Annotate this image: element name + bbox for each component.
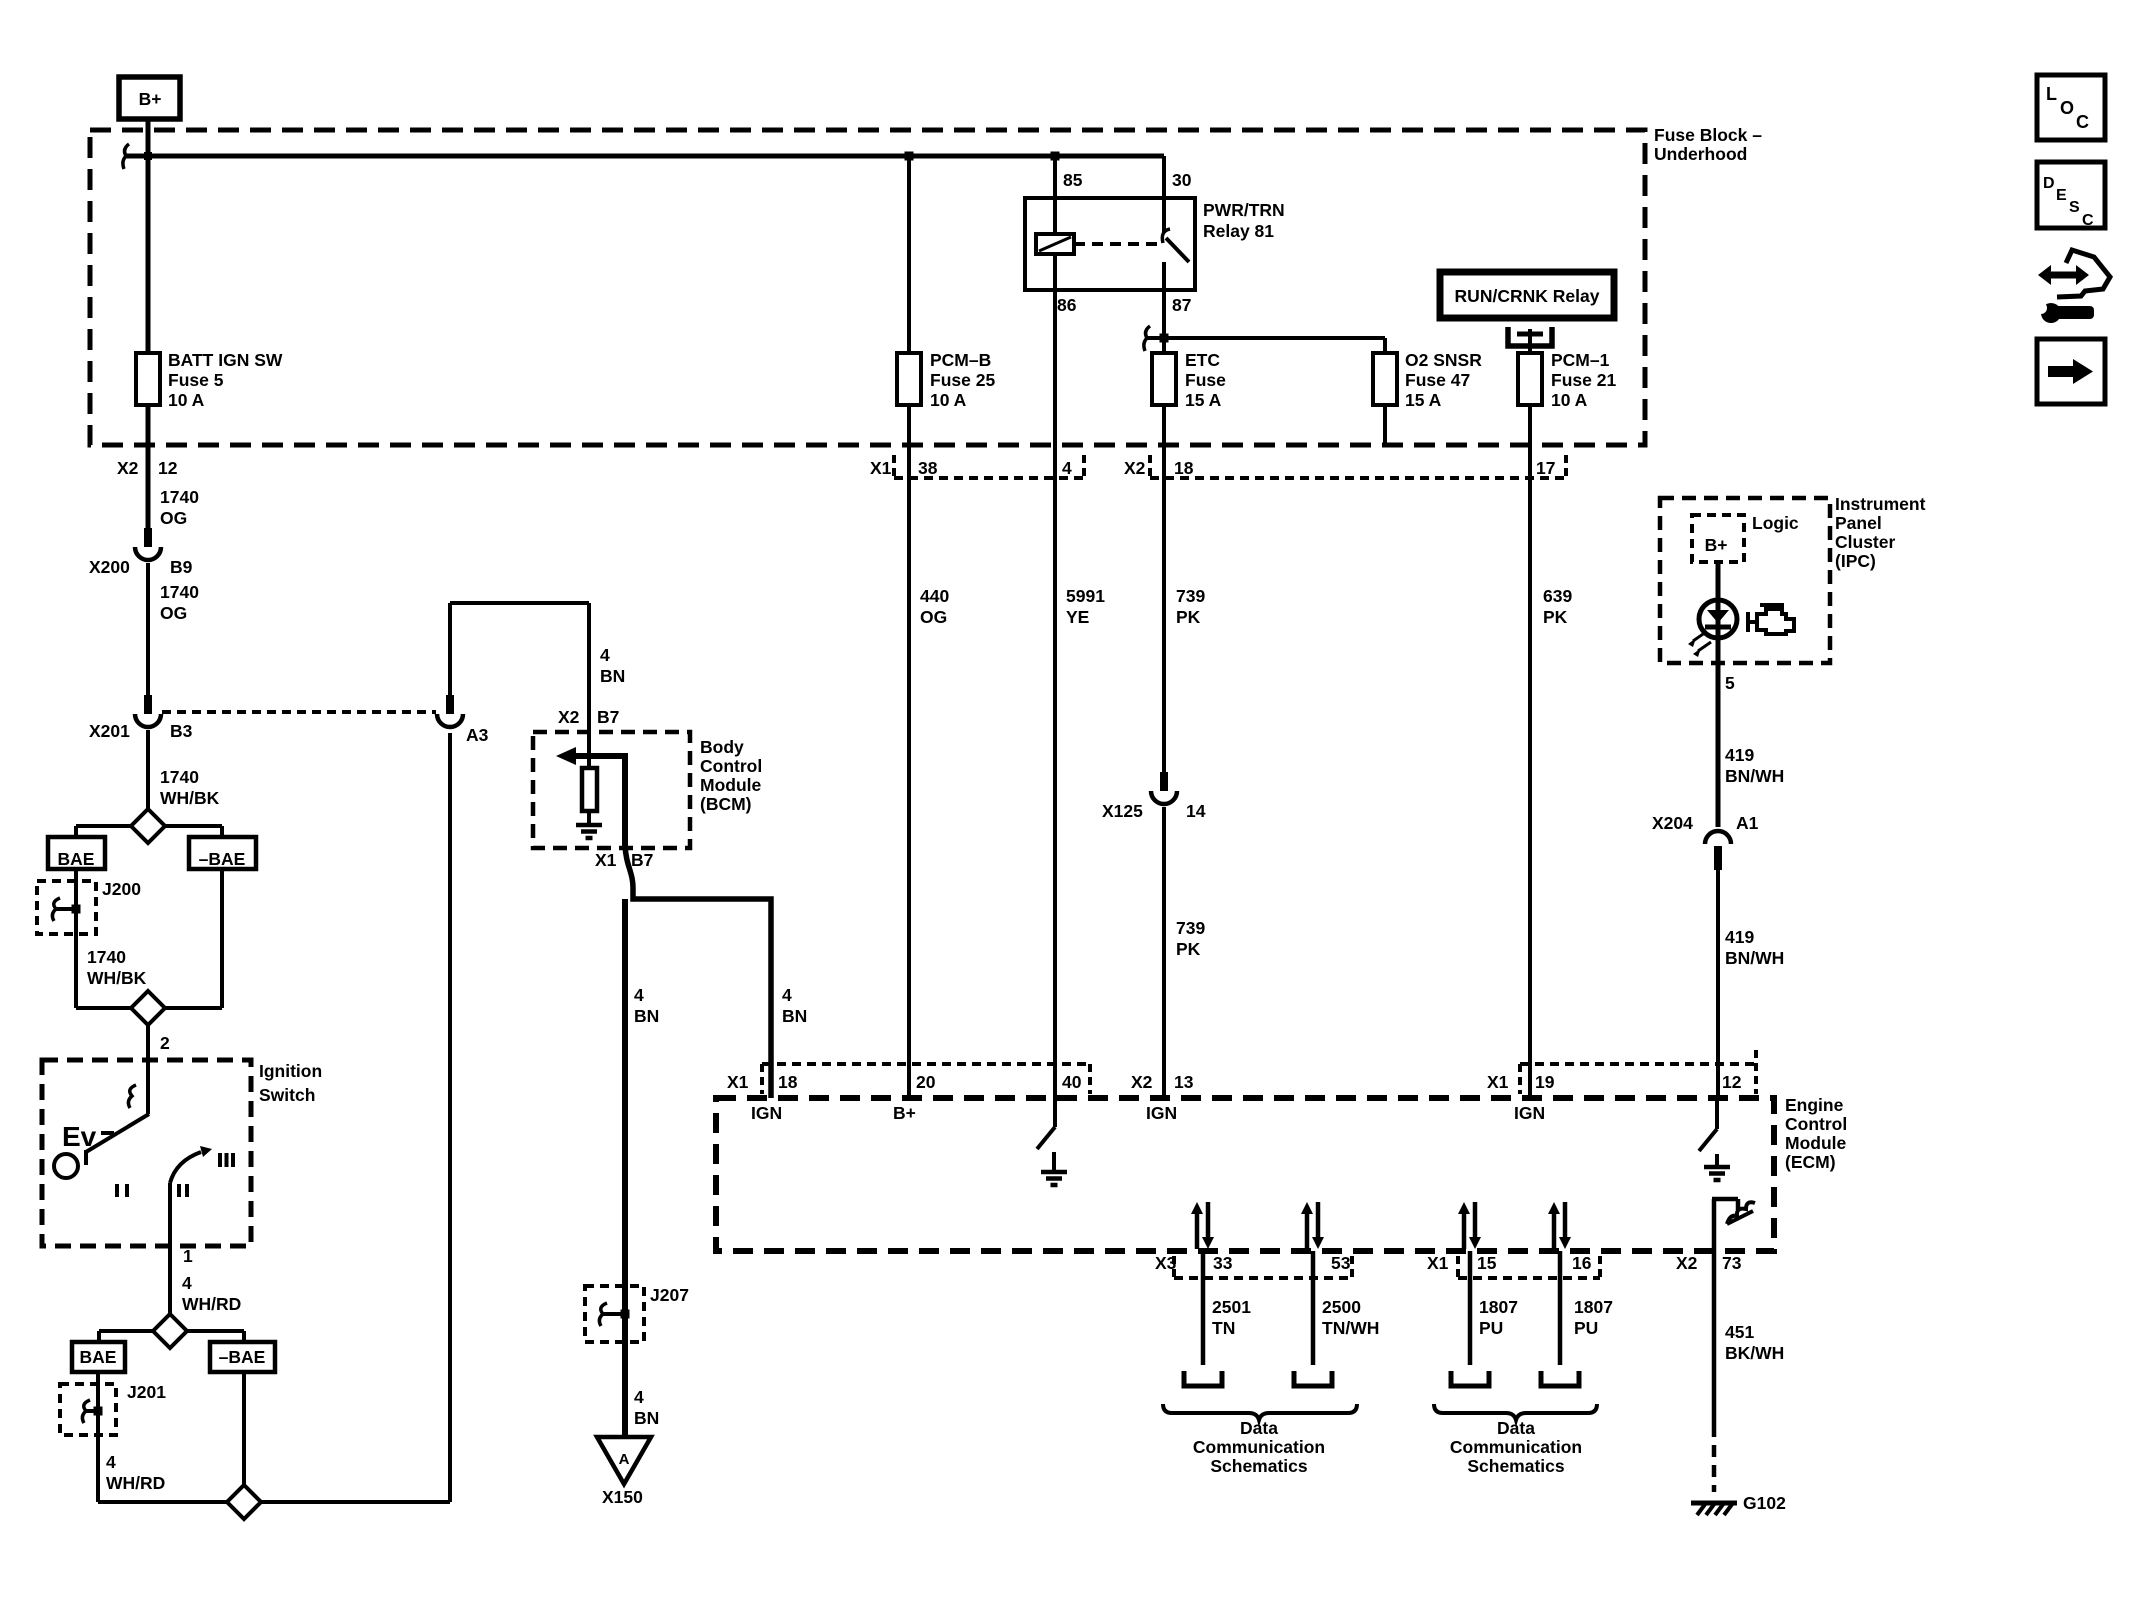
svg-text:87: 87 xyxy=(1172,295,1191,315)
svg-text:RUN/CRNK Relay: RUN/CRNK Relay xyxy=(1455,286,1600,306)
svg-text:1740: 1740 xyxy=(160,767,199,787)
svg-text:O2 SNSR: O2 SNSR xyxy=(1405,350,1482,370)
svg-text:BN/WH: BN/WH xyxy=(1725,766,1784,786)
svg-text:PCM–B: PCM–B xyxy=(930,350,991,370)
svg-text:Fuse 25: Fuse 25 xyxy=(930,370,995,390)
svg-text:ETC: ETC xyxy=(1185,350,1220,370)
svg-text:X2: X2 xyxy=(117,458,139,478)
svg-text:1740: 1740 xyxy=(160,487,199,507)
svg-text:B9: B9 xyxy=(170,557,193,577)
svg-text:10 A: 10 A xyxy=(168,390,205,410)
svg-text:1740: 1740 xyxy=(87,947,126,967)
svg-text:X125: X125 xyxy=(1102,801,1143,821)
svg-text:30: 30 xyxy=(1172,170,1192,190)
svg-text:Data: Data xyxy=(1240,1418,1278,1438)
svg-text:Underhood: Underhood xyxy=(1654,144,1747,164)
svg-text:C: C xyxy=(2076,112,2089,132)
svg-text:YE: YE xyxy=(1066,607,1089,627)
svg-text:O: O xyxy=(2060,98,2074,118)
svg-text:PCM–1: PCM–1 xyxy=(1551,350,1610,370)
svg-text:Module: Module xyxy=(700,775,762,795)
svg-text:BN: BN xyxy=(600,666,625,686)
svg-text:C: C xyxy=(2082,212,2094,229)
svg-text:440: 440 xyxy=(920,586,949,606)
svg-text:4: 4 xyxy=(782,985,792,1005)
svg-text:–BAE: –BAE xyxy=(199,849,246,869)
svg-text:OG: OG xyxy=(920,607,947,627)
svg-text:X150: X150 xyxy=(602,1487,643,1507)
svg-text:Schematics: Schematics xyxy=(1210,1456,1308,1476)
svg-text:Data: Data xyxy=(1497,1418,1535,1438)
svg-text:Engine: Engine xyxy=(1785,1095,1844,1115)
svg-text:BN: BN xyxy=(634,1006,659,1026)
svg-text:G102: G102 xyxy=(1743,1493,1786,1513)
svg-text:17: 17 xyxy=(1536,458,1555,478)
svg-text:X2: X2 xyxy=(1131,1072,1153,1092)
svg-text:–BAE: –BAE xyxy=(219,1347,266,1367)
svg-text:PWR/TRN: PWR/TRN xyxy=(1203,200,1285,220)
svg-text:X2: X2 xyxy=(558,707,580,727)
svg-text:TN: TN xyxy=(1212,1318,1235,1338)
svg-text:X1: X1 xyxy=(870,458,892,478)
svg-text:BN: BN xyxy=(634,1408,659,1428)
svg-text:B+: B+ xyxy=(1705,535,1728,555)
svg-text:639: 639 xyxy=(1543,586,1572,606)
svg-text:E: E xyxy=(2056,187,2067,204)
svg-text:15: 15 xyxy=(1477,1253,1497,1273)
svg-text:Body: Body xyxy=(700,737,744,757)
svg-text:PK: PK xyxy=(1176,607,1201,627)
svg-text:S: S xyxy=(2069,199,2080,216)
svg-text:Schematics: Schematics xyxy=(1467,1456,1565,1476)
svg-text:Ignition: Ignition xyxy=(259,1061,322,1081)
svg-text:B7: B7 xyxy=(597,707,619,727)
svg-text:WH/RD: WH/RD xyxy=(182,1294,241,1314)
svg-text:X200: X200 xyxy=(89,557,130,577)
svg-text:10 A: 10 A xyxy=(930,390,967,410)
svg-text:X2: X2 xyxy=(1124,458,1146,478)
svg-text:4: 4 xyxy=(1062,458,1072,478)
svg-text:53: 53 xyxy=(1331,1253,1351,1273)
svg-text:85: 85 xyxy=(1063,170,1083,190)
svg-text:B+: B+ xyxy=(893,1103,916,1123)
svg-text:14: 14 xyxy=(1186,801,1206,821)
svg-text:4: 4 xyxy=(106,1452,116,1472)
svg-text:Ev: Ev xyxy=(62,1121,97,1152)
svg-text:1740: 1740 xyxy=(160,582,199,602)
svg-text:J207: J207 xyxy=(650,1285,689,1305)
svg-text:20: 20 xyxy=(916,1072,936,1092)
svg-text:(BCM): (BCM) xyxy=(700,794,752,814)
svg-text:X3: X3 xyxy=(1155,1253,1177,1273)
svg-text:A3: A3 xyxy=(466,725,489,745)
svg-text:BN: BN xyxy=(782,1006,807,1026)
svg-text:2500: 2500 xyxy=(1322,1297,1361,1317)
svg-text:40: 40 xyxy=(1062,1072,1082,1092)
svg-text:X1: X1 xyxy=(1487,1072,1509,1092)
svg-text:12: 12 xyxy=(158,458,178,478)
svg-text:13: 13 xyxy=(1174,1072,1194,1092)
svg-text:15 A: 15 A xyxy=(1185,390,1222,410)
svg-text:OG: OG xyxy=(160,508,187,528)
svg-text:X1: X1 xyxy=(595,850,617,870)
svg-text:16: 16 xyxy=(1572,1253,1592,1273)
svg-text:Fuse 21: Fuse 21 xyxy=(1551,370,1616,390)
svg-text:J200: J200 xyxy=(102,879,141,899)
svg-text:10 A: 10 A xyxy=(1551,390,1588,410)
svg-text:WH/BK: WH/BK xyxy=(87,968,147,988)
svg-text:PU: PU xyxy=(1479,1318,1503,1338)
svg-text:PK: PK xyxy=(1176,939,1201,959)
svg-text:Communication: Communication xyxy=(1450,1437,1582,1457)
svg-text:73: 73 xyxy=(1722,1253,1742,1273)
svg-text:Communication: Communication xyxy=(1193,1437,1325,1457)
svg-text:OG: OG xyxy=(160,603,187,623)
svg-text:IGN: IGN xyxy=(751,1103,782,1123)
svg-text:18: 18 xyxy=(1174,458,1194,478)
svg-text:(IPC): (IPC) xyxy=(1835,551,1876,571)
svg-text:15 A: 15 A xyxy=(1405,390,1442,410)
svg-text:X1: X1 xyxy=(1427,1253,1449,1273)
svg-text:1: 1 xyxy=(183,1246,193,1266)
svg-text:38: 38 xyxy=(918,458,938,478)
svg-text:4: 4 xyxy=(634,985,644,1005)
svg-text:5: 5 xyxy=(1725,673,1735,693)
svg-text:B+: B+ xyxy=(139,89,162,109)
svg-text:Switch: Switch xyxy=(259,1085,315,1105)
svg-text:Fuse Block –: Fuse Block – xyxy=(1654,125,1762,145)
svg-text:Panel: Panel xyxy=(1835,513,1882,533)
svg-text:2: 2 xyxy=(160,1033,170,1053)
svg-text:J201: J201 xyxy=(127,1382,166,1402)
svg-text:Instrument: Instrument xyxy=(1835,494,1926,514)
svg-text:739: 739 xyxy=(1176,918,1205,938)
svg-text:A1: A1 xyxy=(1736,813,1759,833)
svg-text:X2: X2 xyxy=(1676,1253,1698,1273)
svg-text:Cluster: Cluster xyxy=(1835,532,1895,552)
svg-text:A: A xyxy=(619,1451,630,1468)
svg-text:Module: Module xyxy=(1785,1133,1847,1153)
svg-text:BK/WH: BK/WH xyxy=(1725,1343,1784,1363)
svg-text:4: 4 xyxy=(634,1387,644,1407)
svg-text:Control: Control xyxy=(1785,1114,1847,1134)
svg-text:B3: B3 xyxy=(170,721,193,741)
svg-text:4: 4 xyxy=(600,645,610,665)
svg-text:L: L xyxy=(2046,84,2057,104)
svg-text:2501: 2501 xyxy=(1212,1297,1251,1317)
svg-text:IGN: IGN xyxy=(1146,1103,1177,1123)
svg-text:D: D xyxy=(2043,175,2055,192)
svg-text:Relay 81: Relay 81 xyxy=(1203,221,1274,241)
svg-text:18: 18 xyxy=(778,1072,798,1092)
svg-text:TN/WH: TN/WH xyxy=(1322,1318,1379,1338)
svg-text:1807: 1807 xyxy=(1479,1297,1518,1317)
svg-text:4: 4 xyxy=(182,1273,192,1293)
svg-text:BATT IGN SW: BATT IGN SW xyxy=(168,350,283,370)
svg-text:451: 451 xyxy=(1725,1322,1754,1342)
svg-text:Fuse: Fuse xyxy=(1185,370,1226,390)
svg-text:PK: PK xyxy=(1543,607,1568,627)
svg-text:19: 19 xyxy=(1535,1072,1555,1092)
svg-text:BN/WH: BN/WH xyxy=(1725,948,1784,968)
svg-text:Fuse 5: Fuse 5 xyxy=(168,370,224,390)
svg-text:86: 86 xyxy=(1057,295,1077,315)
svg-text:BAE: BAE xyxy=(80,1347,117,1367)
svg-text:419: 419 xyxy=(1725,745,1754,765)
svg-text:Fuse 47: Fuse 47 xyxy=(1405,370,1470,390)
svg-text:(ECM): (ECM) xyxy=(1785,1152,1836,1172)
svg-text:X201: X201 xyxy=(89,721,130,741)
svg-text:BAE: BAE xyxy=(58,849,95,869)
svg-text:Control: Control xyxy=(700,756,762,776)
svg-text:IGN: IGN xyxy=(1514,1103,1545,1123)
svg-text:PU: PU xyxy=(1574,1318,1598,1338)
svg-text:1807: 1807 xyxy=(1574,1297,1613,1317)
svg-text:33: 33 xyxy=(1213,1253,1233,1273)
svg-text:419: 419 xyxy=(1725,927,1754,947)
svg-text:5991: 5991 xyxy=(1066,586,1105,606)
svg-text:WH/RD: WH/RD xyxy=(106,1473,165,1493)
svg-text:12: 12 xyxy=(1722,1072,1742,1092)
svg-text:X204: X204 xyxy=(1652,813,1693,833)
svg-text:739: 739 xyxy=(1176,586,1205,606)
svg-text:WH/BK: WH/BK xyxy=(160,788,220,808)
svg-text:X1: X1 xyxy=(727,1072,749,1092)
svg-text:Logic: Logic xyxy=(1752,513,1799,533)
svg-text:B7: B7 xyxy=(631,850,653,870)
